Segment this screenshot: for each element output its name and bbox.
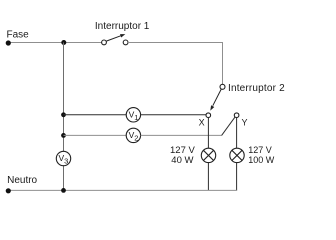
node: Fase terminal dot [6,40,11,45]
voltmeter V3 [56,151,70,165]
svg-text:3: 3 [64,157,68,166]
switch S1 contact right [123,40,128,45]
wire: X down to lamp L1 [207,118,209,149]
wire: lamp L2 down to Neutro [236,163,238,191]
wire: V2 diagonal up to contact Y [222,117,235,135]
junction dot V2 branch [61,133,66,138]
voltmeter V2 [126,128,140,142]
wire: Fase horizontal [8,42,101,44]
wire: V1 branch right segment to X [141,114,206,116]
svg-text:Y: Y [242,117,248,127]
wire: Neutro horizontal [8,189,237,191]
svg-text:Interruptor 2: Interruptor 2 [228,83,285,94]
wire: trunk vertical upper (Fase to V3) [63,43,65,152]
junction dot Fase-trunk [61,40,66,45]
wire: V2 branch right segment [141,134,222,136]
svg-text:2: 2 [134,133,138,142]
switch S1 contact left [102,40,107,45]
wire: trunk vertical lower (V3 to Neutro) [63,166,65,191]
wire: corner down to S2 pivot [222,42,224,84]
svg-text:Interruptor 1: Interruptor 1 [95,21,150,32]
node: Neutro terminal dot [6,188,11,193]
wire: S1 to top-right corner [128,42,223,44]
contact X circle [206,113,211,118]
switch S2 pivot contact [220,84,225,89]
switch S1 lever with arrowhead [106,34,125,41]
contact Y circle [234,113,239,118]
svg-text:100 W: 100 W [248,155,275,165]
wire: Y down to lamp L2 [236,118,238,149]
svg-text:Neutro: Neutro [7,175,37,186]
svg-text:1: 1 [134,113,138,122]
switch S2 lever with arrowhead [210,89,221,111]
voltmeter V1 [126,108,140,122]
lamp L2 (circle with cross) [230,148,244,162]
svg-text:40 W: 40 W [171,155,193,166]
wire: V2 branch left segment [64,134,127,136]
svg-text:Fase: Fase [7,30,30,41]
svg-text:X: X [199,117,205,127]
lamp L1 (circle with cross) [201,148,215,162]
wire: V1 branch left segment [64,114,127,116]
junction dot V1 branch [61,112,66,117]
svg-text:127 V: 127 V [248,145,272,155]
wire: lamp L1 down to Neutro [207,163,209,191]
junction dot Neutro-trunk [61,188,66,193]
